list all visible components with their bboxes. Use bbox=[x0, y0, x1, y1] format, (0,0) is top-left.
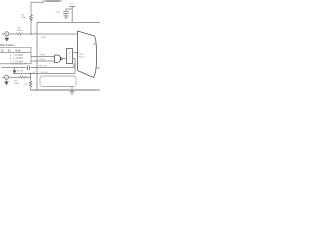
svg-text:R3: R3 bbox=[18, 27, 22, 29]
svg-text:IN B1: IN B1 bbox=[39, 55, 46, 57]
svg-text:1 µF: 1 µF bbox=[56, 12, 61, 14]
resistor R4 bbox=[20, 76, 27, 78]
wire gate to driver bbox=[62, 58, 66, 60]
gate U2 NAND bbox=[55, 55, 61, 63]
svg-text:32.768 kHz: 32.768 kHz bbox=[12, 64, 23, 66]
svg-text:VDD: VDD bbox=[41, 37, 46, 39]
rounded box bbox=[40, 76, 76, 87]
wire cap branch bbox=[66, 9, 72, 11]
wire speaker terminal 1 bbox=[93, 43, 96, 45]
ground bbox=[63, 16, 68, 19]
IC U1 box open right bbox=[31, 23, 101, 91]
svg-text:IN B0: IN B0 bbox=[39, 59, 46, 61]
svg-text:Band Select: Band Select bbox=[0, 43, 15, 47]
svg-text:0: 0 bbox=[10, 58, 12, 60]
svg-text:1 kΩ: 1 kΩ bbox=[14, 83, 19, 85]
node VDD bar bbox=[69, 5, 76, 7]
svg-text:Piezo: Piezo bbox=[79, 54, 85, 56]
svg-text:1k: 1k bbox=[25, 84, 28, 86]
resistor R3 bbox=[16, 33, 23, 35]
svg-text:10 kΩ: 10 kΩ bbox=[17, 30, 23, 32]
driver U3 bbox=[67, 49, 73, 64]
wire speaker terminal 2 bbox=[97, 67, 100, 69]
wire table out 2 bbox=[31, 60, 55, 62]
wire oscillator in bbox=[13, 73, 75, 75]
svg-text:IN OSC: IN OSC bbox=[41, 72, 49, 74]
svg-text:100k: 100k bbox=[21, 17, 27, 19]
ground arrow below V1 bbox=[6, 36, 8, 38]
source V2 bbox=[5, 75, 9, 79]
wire ext clock bbox=[2, 67, 27, 69]
ground bottom bbox=[71, 87, 73, 92]
ground arrow below V2 bbox=[6, 79, 8, 81]
table header rule bbox=[0, 51, 31, 53]
svg-text:Sound: Sound bbox=[79, 56, 86, 58]
wire top corner bbox=[31, 2, 44, 14]
ground arrow mid bbox=[14, 68, 16, 71]
wire table stub bbox=[25, 62, 27, 64]
svg-text:4.0 kHz: 4.0 kHz bbox=[15, 58, 24, 60]
wire top cropped segment bbox=[41, 0, 64, 2]
wire driver out bottom bbox=[73, 59, 76, 74]
svg-text:2.0 kHz: 2.0 kHz bbox=[15, 55, 24, 57]
wire table out 1 bbox=[31, 56, 55, 58]
wire VDD to U1 pin bbox=[71, 6, 73, 22]
wire C2 to U1 bbox=[31, 67, 38, 69]
source V1 bbox=[5, 32, 9, 36]
wire V1 to R3 bbox=[9, 33, 16, 35]
svg-text:5 V: 5 V bbox=[70, 3, 74, 5]
wire feedback bbox=[37, 64, 74, 68]
wire V2 to R4 bbox=[9, 76, 20, 78]
wire R4 to node B bbox=[26, 76, 30, 78]
node A junction bbox=[30, 33, 32, 35]
resistor R1 bbox=[30, 15, 33, 21]
wire R5 to ground rail bbox=[30, 87, 32, 90]
wire R3 to speaker bbox=[23, 33, 78, 35]
svg-text:R: R bbox=[69, 58, 71, 60]
svg-text:0.1 µF: 0.1 µF bbox=[17, 70, 24, 72]
capacitor C1 bbox=[63, 11, 69, 13]
wire V1 stub bbox=[2, 33, 5, 35]
wire node B divider bbox=[30, 74, 32, 82]
wire driver out top bbox=[73, 52, 78, 54]
table box bbox=[0, 48, 31, 64]
capacitor C2 bbox=[28, 66, 30, 71]
speaker LS1 bbox=[78, 31, 97, 78]
wire V2 stub bbox=[2, 76, 5, 78]
node B junction bbox=[30, 73, 31, 74]
svg-text:FB OUT: FB OUT bbox=[39, 66, 48, 68]
table column rule bbox=[13, 52, 15, 64]
resistor R5 bbox=[29, 81, 32, 87]
wire C1 to ground bbox=[65, 14, 67, 16]
wire R1 to node A bbox=[30, 20, 32, 34]
svg-text:1: 1 bbox=[10, 55, 12, 57]
